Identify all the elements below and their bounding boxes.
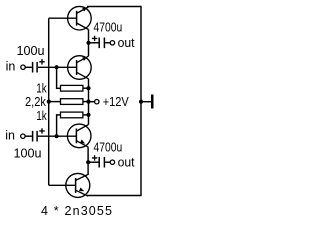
svg-text:4 * 2n3055: 4 * 2n3055 bbox=[41, 204, 112, 218]
wire +12V stub to battery terminal bbox=[141, 101, 151, 103]
junction bottom 4700u bbox=[86, 160, 90, 164]
wire top input to Q2 base bbox=[38, 66, 77, 68]
wire Q3 emitter down to Q4 bbox=[87, 147, 89, 175]
svg-text:100u: 100u bbox=[14, 147, 42, 161]
terminal +12V bbox=[95, 100, 99, 104]
wire bottom 4700u stub bbox=[88, 161, 98, 163]
wire R2 right bbox=[83, 101, 89, 103]
wire top input row bbox=[25, 66, 32, 68]
wire Q1 base bbox=[49, 17, 77, 19]
junction right rail +12V bbox=[139, 100, 143, 104]
wire top 4700u to out bbox=[105, 42, 110, 44]
wire R1 left drop bbox=[57, 67, 61, 88]
wire Q1 collector to Q2 emitter bbox=[88, 30, 90, 57]
junction bottom input bbox=[55, 134, 59, 138]
plus sign top 4700u bbox=[92, 36, 97, 41]
svg-text:1k: 1k bbox=[36, 81, 47, 95]
wire right rail bbox=[140, 6, 142, 196]
resistor R 1k bottom bbox=[61, 112, 83, 118]
terminal in top bbox=[21, 65, 25, 69]
capacitor 100u top plates bbox=[33, 62, 38, 73]
wire R2 left bbox=[49, 101, 61, 103]
wire bottom rail bbox=[87, 195, 141, 197]
junction top input bbox=[55, 65, 59, 69]
plus sign bottom 4700u bbox=[92, 155, 97, 160]
wire R1 right bbox=[83, 87, 89, 89]
terminal out top bbox=[110, 41, 114, 45]
capacitor 4700u bottom plates bbox=[99, 157, 104, 168]
resistor R 1k top bbox=[61, 85, 83, 91]
wire R3 left rise bbox=[57, 115, 61, 136]
plus sign bottom input cap bbox=[39, 128, 44, 133]
wire +12V stub left bbox=[89, 101, 95, 103]
svg-text:in: in bbox=[5, 128, 15, 142]
terminal out bottom bbox=[110, 160, 114, 164]
plus sign top input cap bbox=[39, 59, 44, 64]
resistor R 2,2k bbox=[61, 99, 83, 105]
transistor Q4 bbox=[66, 173, 90, 197]
wire bottom 4700u to out bbox=[105, 161, 110, 163]
svg-text:4700u: 4700u bbox=[94, 20, 123, 34]
junction R2 right / +12V bbox=[86, 100, 90, 104]
junction R2 left bbox=[47, 100, 51, 104]
wire bottom input to Q3 base bbox=[38, 135, 77, 137]
junction R3 right bbox=[86, 113, 90, 117]
capacitor 100u bottom plates bbox=[33, 131, 38, 142]
junction R1 right bbox=[86, 86, 90, 90]
svg-text:1k: 1k bbox=[36, 109, 47, 123]
wire R3 right bbox=[83, 114, 89, 116]
transistor Q2 bbox=[68, 56, 92, 80]
svg-text:100u: 100u bbox=[17, 44, 45, 58]
wire Q2 collector down middle column bbox=[88, 79, 90, 125]
wire Q4 base bbox=[49, 184, 76, 186]
wire top 4700u stub bbox=[89, 42, 99, 44]
wire bottom input row bbox=[25, 135, 32, 137]
svg-text:2,2k: 2,2k bbox=[25, 95, 47, 109]
junction top 4700u bbox=[86, 41, 90, 45]
capacitor 4700u top plates bbox=[99, 38, 104, 49]
svg-text:out: out bbox=[118, 156, 136, 170]
terminal in bottom bbox=[21, 134, 25, 138]
transistor Q3 bbox=[67, 124, 91, 148]
svg-text:out: out bbox=[118, 36, 136, 50]
transistor Q1 bbox=[68, 6, 92, 30]
battery terminal bar bbox=[151, 95, 154, 109]
svg-text:in: in bbox=[6, 59, 16, 73]
wire left vertical bus bbox=[48, 18, 50, 185]
svg-text:+12V: +12V bbox=[103, 95, 130, 109]
wire top rail bbox=[87, 6, 141, 8]
svg-text:4700u: 4700u bbox=[94, 140, 123, 154]
